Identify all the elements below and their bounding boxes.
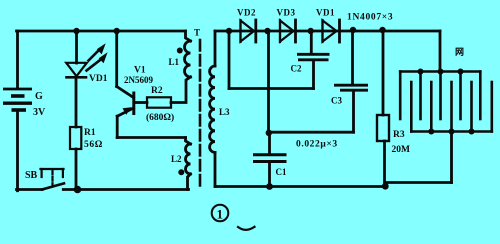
wire base to R2 [134,101,147,104]
grid tooth bottom 1 [410,82,413,132]
node junction C1/bottom bus [266,183,273,190]
wire R3 top lead [382,30,385,115]
grid tooth bottom 3 [450,82,453,132]
svg-text:R3: R3 [393,130,405,140]
svg-text:L2: L2 [171,154,182,164]
svg-text:20M: 20M [392,145,411,155]
wire C1 bottom lead [268,163,271,187]
polarity dot L1 [177,48,183,54]
grid tooth top 5 [479,72,482,120]
node junction LED/top bus [73,28,79,34]
wire C3 bottom lead [352,92,355,133]
wire top bus to grid feed [439,31,442,72]
svg-text:0.022μ×3: 0.022μ×3 [296,140,338,150]
capacitor C3 plates [334,85,368,90]
grid top bus junction dots [418,69,424,75]
svg-text:2N5609: 2N5609 [124,75,153,85]
grid tooth bottom 2 [430,82,433,132]
svg-text:G: G [35,91,43,102]
grid electrode bottom bus [411,82,492,132]
svg-text:L1: L1 [169,57,180,67]
winding L1 [186,31,191,41]
resistor R1 body [70,127,81,149]
svg-text:1: 1 [217,207,224,222]
diode VD3 [280,20,296,42]
svg-text:VD3: VD3 [277,8,296,18]
node junction C3/top bus [350,27,356,33]
wire C1 node to C3 bottom [269,131,354,134]
capacitor C1 plates [253,155,287,162]
grid tooth top 2 [419,72,422,120]
node junction dot1 L3/VD2 [226,28,232,34]
resistor R2 body [147,97,171,107]
node junction dot3 VD3/VD1 [308,28,314,34]
svg-text:(680Ω): (680Ω) [146,112,174,123]
node junction collector/top bus [114,28,120,34]
wire C1 top lead [268,133,271,154]
wire bottom primary bus right of switch [63,188,188,191]
svg-text:R2: R2 [151,86,163,96]
grid electrode top bus [400,72,480,120]
wire C3 top lead [351,30,354,84]
node junction R1/bottom bus [74,186,82,194]
wire top primary bus [17,30,186,33]
diode VD2 [241,20,256,42]
svg-text:网: 网 [455,47,464,57]
wire emitter to L2 top [117,136,185,139]
svg-text:1N4007×3: 1N4007×3 [347,13,393,23]
wire grid return horizontal [386,183,452,187]
wire C2 bottom lead [312,61,315,89]
svg-text:SB: SB [25,170,38,181]
capacitor C2 plates [297,54,330,60]
svg-text:56Ω: 56Ω [84,140,103,150]
battery G 3V plates [3,89,32,110]
svg-text:3V: 3V [33,107,46,118]
diode VD1 (secondary) [323,20,340,42]
wire LED cathode to R1 [75,79,78,128]
wire left border upper (battery top lead) [16,31,19,88]
svg-text:C2: C2 [291,64,302,74]
wire L3 bottom lead [214,152,217,186]
node junction R3/top bus [379,27,385,33]
winding L2 [186,138,191,145]
svg-text:L3: L3 [219,107,230,117]
wire dot1 down [228,31,231,89]
grid tooth bottom 5 [490,82,493,132]
wire left border lower (battery bottom lead) [16,112,19,191]
wire C2 top lead [310,31,313,53]
wire dot2 down to C1 node [267,31,270,133]
wire R1 bottom lead [75,149,78,190]
svg-text:T: T [194,28,200,38]
transistor V1 base bar [132,93,135,114]
svg-text:VD1: VD1 [316,8,335,18]
wire horizontal to C2 bottom [229,87,314,90]
polarity dot L2 [178,169,184,175]
wire grid return vertical [450,132,453,183]
wire bottom secondary bus [215,185,386,188]
winding L3 [214,31,217,66]
node junction dot2 VD2/VD3 [264,28,270,34]
transistor V1 collector diagonal [117,87,134,98]
LED VD1 emission arrow 1 [89,43,106,60]
resistor R3 body [377,115,389,141]
wire collector lead V1 [115,31,118,87]
grid bottom bus junction dots [428,129,434,135]
grid tooth bottom 4 [470,82,473,132]
switch SB blade [42,183,64,189]
switch SB actuator dashed link [51,171,53,186]
switch SB pushbutton cap [41,169,64,186]
node junction R3/bottom bus [382,183,389,190]
grid tooth top 4 [459,72,462,120]
svg-text:VD2: VD2 [237,8,256,18]
svg-text:C3: C3 [331,96,342,106]
svg-text:C1: C1 [276,167,287,177]
svg-text:VD1: VD1 [89,74,108,84]
node junction C1/C3 [266,130,272,136]
wire R2 to L1 bottom [171,77,191,103]
transformer core dashed line [199,40,202,186]
grid tooth top 3 [439,72,442,120]
wire emitter lead down [116,116,119,137]
LED VD1 triangle [66,63,87,76]
grid tooth top 1 [399,72,402,120]
figure number circled 1 [212,205,229,222]
wire bottom primary bus left of switch [17,188,43,191]
svg-text:V1: V1 [134,66,146,76]
svg-text:R1: R1 [84,128,96,138]
LED VD1 emission arrow 2 [87,52,108,70]
decorative tilde [238,227,255,230]
wire LED anode lead [75,31,78,63]
wire R3 bottom lead [383,141,386,186]
LED VD1 cathode bar [67,76,87,79]
transistor V1 emitter diagonal with arrow [117,108,133,116]
wire top secondary bus [215,30,440,33]
